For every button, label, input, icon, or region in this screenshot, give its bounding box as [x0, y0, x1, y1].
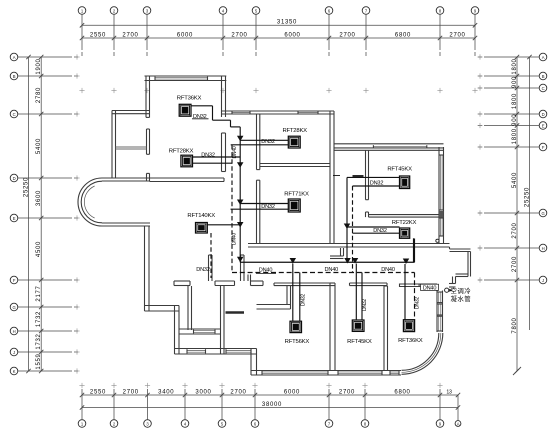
svg-text:D: D — [542, 112, 545, 117]
svg-text:1800: 1800 — [512, 58, 518, 74]
wall top of right section with window — [334, 144, 444, 148]
label RFT22KX — [392, 220, 417, 226]
fan coil RFT140KX — [196, 223, 208, 234]
svg-text:E: E — [542, 123, 545, 128]
wall band below middle rooms — [248, 244, 450, 248]
pipe RFT140KX supply — [207, 224, 240, 226]
wall between RFT45KX and RFT22KX — [369, 215, 440, 218]
svg-text:1732: 1732 — [36, 333, 42, 349]
wall lower-left step 1 — [145, 306, 180, 312]
wall divider x332 — [330, 283, 335, 371]
wall right of middle rooms — [330, 111, 334, 244]
wall left of RFT22KX room — [366, 212, 369, 217]
wall right outer upper with windows — [439, 147, 444, 244]
wall corridor inner line — [334, 149, 444, 151]
fan coil RFT36KX upper-left — [179, 104, 191, 116]
fan coil RFT28KX middle — [288, 136, 300, 148]
wall right outer lower with window — [437, 291, 443, 333]
svg-text:DN40: DN40 — [423, 285, 437, 291]
label DN40 main left — [256, 268, 276, 274]
wall bay window arc — [78, 178, 102, 226]
svg-text:6000: 6000 — [284, 389, 300, 395]
svg-text:G: G — [12, 305, 15, 310]
label DN32 drop RFT56KX — [300, 294, 306, 306]
arrow riser junction 4 — [237, 222, 244, 228]
left dimension band with grid bubbles — [10, 53, 79, 375]
wall room B left — [188, 286, 192, 330]
label DN32 drop RFT36KX — [414, 297, 420, 309]
svg-text:2700: 2700 — [512, 222, 518, 238]
door lintel stub lower-left — [226, 311, 245, 313]
right dimension band with grid bubbles — [477, 53, 546, 375]
pipe RFT45KX top supply — [347, 177, 400, 262]
svg-text:6000: 6000 — [284, 32, 300, 38]
svg-text:空调冷: 空调冷 — [450, 286, 471, 295]
label DN32 at RFT140KX — [196, 267, 210, 273]
arrow riser junction 3 — [237, 200, 244, 206]
wall left of RFT45KX room — [366, 150, 369, 200]
svg-text:25250: 25250 — [23, 177, 29, 197]
pipe RFT28KX middle supply — [240, 139, 288, 141]
pipe RFT28KX middle return — [231, 144, 289, 146]
pipe solid main — [240, 239, 414, 263]
wall divider x385 — [384, 286, 388, 371]
wall closet bottom — [257, 305, 291, 310]
pipe drop RFT36KX bottom supply — [404, 264, 406, 320]
svg-text:H: H — [13, 329, 16, 334]
wall stub RFT45KX door — [353, 175, 364, 177]
wall corridor stub 3 — [248, 275, 251, 282]
svg-text:DN32: DN32 — [201, 152, 215, 158]
arrow riser junction 2 — [237, 162, 244, 168]
svg-text:G: G — [541, 211, 544, 216]
label RFT56KX — [285, 339, 310, 345]
svg-text:凝水管: 凝水管 — [450, 294, 471, 303]
wall horizontal upper-left — [112, 111, 150, 114]
label RFT45KX upper-right — [387, 166, 412, 172]
svg-text:1800: 1800 — [512, 93, 518, 109]
svg-text:RFT28KX: RFT28KX — [282, 128, 307, 134]
label DN40 main mid — [325, 267, 339, 273]
svg-text:1559: 1559 — [36, 353, 42, 369]
pipe drop RFT45KX bottom return — [361, 273, 363, 321]
arrow main drop RFT56KX — [290, 258, 297, 264]
pipe RFT22KX return — [353, 232, 400, 234]
fan coil RFT45KX upper-right — [400, 176, 410, 189]
label DN32 at RFT45KX top — [370, 181, 384, 187]
wall room B bottom — [179, 329, 221, 334]
wall step right of band — [449, 247, 471, 287]
svg-text:DN40: DN40 — [259, 268, 273, 274]
wall interior x147 lower segment — [147, 173, 150, 181]
pipe drop RFT56KX supply — [292, 264, 294, 322]
pipe RFT45KX top return — [353, 186, 400, 273]
drain circle at RFT22KX wall — [436, 239, 439, 242]
svg-text:DN32: DN32 — [370, 181, 384, 187]
label DN32 at RFT28KX middle — [261, 139, 275, 145]
svg-text:2177: 2177 — [36, 285, 42, 301]
label DN32 at RFT22KX — [373, 228, 387, 234]
svg-text:2700: 2700 — [230, 389, 246, 395]
svg-text:E: E — [13, 216, 16, 221]
svg-text:2700: 2700 — [512, 256, 518, 272]
svg-text:31350: 31350 — [277, 19, 297, 25]
label RFT36KX bottom — [398, 338, 423, 344]
pipe dashed return riser corridor — [231, 145, 233, 273]
svg-text:5400: 5400 — [36, 138, 42, 154]
wall left of middle rooms lower — [257, 180, 260, 243]
svg-text:DN32: DN32 — [261, 139, 275, 145]
svg-text:B: B — [542, 74, 545, 79]
svg-text:H: H — [542, 246, 545, 251]
wall right of RFT36KX room — [222, 76, 226, 117]
label DN32 drop RFT45KX — [362, 299, 368, 311]
svg-text:7800: 7800 — [512, 317, 518, 333]
svg-text:DN32: DN32 — [373, 228, 387, 234]
svg-text:3000: 3000 — [195, 389, 211, 395]
svg-text:4500: 4500 — [36, 241, 42, 257]
svg-text:2700: 2700 — [339, 32, 355, 38]
wall corridor stub 2 — [241, 255, 245, 281]
wall bottom rooms top segment 2 — [350, 283, 388, 286]
svg-text:900: 900 — [512, 76, 518, 88]
stub line at wall x334 — [333, 175, 340, 177]
wall bottom of left room — [150, 178, 225, 182]
wall x223 middle segment — [222, 133, 226, 172]
label DN32 at RFT71KX — [261, 204, 275, 210]
wall gray y148 — [116, 147, 147, 149]
svg-text:A: A — [457, 421, 460, 426]
svg-text:3600: 3600 — [36, 190, 42, 206]
label DN40 riser lower — [231, 233, 237, 245]
label RFT140KX — [187, 213, 215, 219]
wall top of RFT36KX room with window — [145, 76, 227, 81]
pipe RFT140KX return dashed — [210, 233, 212, 278]
top dimension band with grid bubbles 1-9 — [78, 7, 479, 93]
svg-text:RFT45KX: RFT45KX — [387, 166, 412, 172]
wall between RFT28KX and RFT71KX — [260, 164, 330, 167]
wall left of RFT36KX room — [146, 76, 150, 117]
label DN40 riser upper — [232, 146, 238, 158]
svg-text:J: J — [542, 278, 544, 283]
label condensate chinese — [450, 286, 471, 303]
svg-text:2700: 2700 — [231, 32, 247, 38]
arrow main drop 347 — [344, 258, 351, 264]
pipe RFT71KX return — [231, 208, 289, 210]
svg-text:RFT22KX: RFT22KX — [392, 220, 417, 226]
svg-text:RFT36KX: RFT36KX — [177, 96, 202, 102]
wall bottom rooms top segment 1 — [274, 283, 335, 286]
svg-text:2700: 2700 — [449, 32, 465, 38]
svg-text:2550: 2550 — [90, 32, 106, 38]
svg-text:1732: 1732 — [36, 311, 42, 327]
wall caps row segment 1 — [174, 281, 190, 286]
wall closet right — [287, 286, 291, 305]
svg-text:5400: 5400 — [512, 172, 518, 188]
svg-text:RFT56KX: RFT56KX — [285, 339, 310, 345]
svg-text:25250: 25250 — [524, 187, 530, 207]
svg-text:B: B — [13, 74, 16, 79]
pipe dashed main — [232, 273, 415, 320]
label RFT71KX — [284, 192, 309, 198]
svg-text:DN40: DN40 — [325, 267, 339, 273]
label DN32 at RFT28KX left — [201, 152, 215, 158]
fan coil RFT71KX — [288, 199, 300, 212]
svg-text:K: K — [13, 369, 16, 374]
svg-text:C: C — [542, 86, 545, 91]
label RFT28KX middle — [282, 128, 307, 134]
pipe RFT28KX left supply — [193, 156, 241, 158]
wall bay top — [102, 178, 150, 181]
svg-text:DN40: DN40 — [381, 267, 395, 273]
svg-text:DN32: DN32 — [300, 294, 306, 306]
svg-text:RFT36KX: RFT36KX — [398, 338, 423, 344]
svg-text:RFT28KX: RFT28KX — [169, 149, 194, 155]
svg-text:RFT140KX: RFT140KX — [187, 213, 215, 219]
svg-text:C: C — [13, 112, 16, 117]
svg-text:6800: 6800 — [394, 389, 410, 395]
wall lower-left step 2 — [175, 306, 180, 355]
svg-text:DN32: DN32 — [362, 299, 368, 311]
wall room B right — [221, 286, 225, 354]
arrow riser junction 1 — [237, 136, 244, 142]
svg-text:3400: 3400 — [158, 389, 174, 395]
wall left outer upper — [112, 111, 116, 179]
svg-text:38000: 38000 — [262, 402, 282, 408]
svg-text:1900: 1900 — [36, 58, 42, 74]
wall caps row segment 3 — [251, 281, 264, 286]
wall top of middle section with windows — [222, 111, 335, 114]
svg-text:900: 900 — [512, 114, 518, 126]
wall interior x147 upper segment — [147, 129, 150, 154]
wall bottom rooms top segment 3 — [399, 284, 401, 288]
condensate drain symbol — [445, 288, 453, 292]
svg-text:2700: 2700 — [123, 389, 139, 395]
pipe RFT28KX left return — [193, 162, 233, 164]
label DN40 boxed right — [421, 284, 439, 291]
fan coil RFT22KX — [400, 228, 410, 238]
wall corridor corner right — [330, 248, 344, 259]
arrow main drop RFT36KX bottom — [403, 259, 410, 265]
pipe supply riser corridor — [239, 127, 241, 262]
wall left outer x147 below bay — [145, 226, 150, 311]
svg-text:6800: 6800 — [395, 32, 411, 38]
pipe RFT22KX down — [413, 238, 415, 262]
wall left of middle rooms upper — [257, 114, 260, 170]
arrow branch RFT22KX — [344, 224, 351, 230]
pipe RFT36KX connection — [191, 106, 240, 127]
fan coil RFT28KX left — [181, 155, 193, 167]
svg-text:D: D — [13, 176, 16, 181]
svg-text:DN32: DN32 — [196, 267, 210, 273]
svg-text:2700: 2700 — [122, 32, 138, 38]
fan coil RFT45KX bottom — [352, 320, 364, 331]
label DN32 at RFT36KX — [192, 114, 209, 120]
svg-text:A: A — [542, 55, 545, 60]
wall bay bottom — [102, 223, 150, 226]
fan coil RFT36KX bottom — [403, 320, 414, 332]
wall curved corner bottom-right — [402, 333, 443, 374]
wall y285 segment left — [400, 284, 438, 287]
svg-text:DN32: DN32 — [261, 204, 275, 210]
bottom dimension band with grid bubbles — [78, 383, 461, 427]
pipe RFT71KX supply — [240, 203, 288, 205]
svg-text:DN40: DN40 — [231, 233, 237, 245]
svg-text:13: 13 — [446, 389, 452, 395]
wall caps row segment 2 — [215, 281, 235, 286]
svg-text:RFT45KX: RFT45KX — [347, 339, 372, 345]
svg-text:A: A — [13, 55, 16, 60]
wall lower-left step 3 — [175, 349, 257, 355]
label RFT36KX upper-left — [177, 96, 202, 102]
pipe RFT22KX supply — [347, 226, 400, 228]
label RFT28KX left — [169, 149, 194, 155]
wall bottom outer with windows — [251, 371, 401, 376]
arrow riser junction 5 — [237, 257, 244, 263]
svg-text:RFT71KX: RFT71KX — [284, 192, 309, 198]
svg-text:2700: 2700 — [339, 389, 355, 395]
fan coil RFT56KX — [290, 321, 302, 332]
pipe drop RFT56KX return — [299, 273, 301, 322]
svg-text:1800: 1800 — [512, 128, 518, 144]
arrow main drop 355 — [352, 258, 359, 264]
label RFT45KX bottom — [347, 339, 372, 345]
svg-text:2780: 2780 — [36, 87, 42, 103]
svg-text:2550: 2550 — [90, 389, 106, 395]
pipe drop RFT45KX bottom supply — [355, 264, 357, 321]
svg-text:6000: 6000 — [177, 32, 193, 38]
svg-text:DN32: DN32 — [414, 297, 420, 309]
wall lower-left step 4 — [251, 349, 257, 376]
svg-text:J: J — [13, 350, 15, 355]
wall corridor stub 1 — [209, 255, 213, 281]
label DN40 main right — [381, 267, 395, 273]
